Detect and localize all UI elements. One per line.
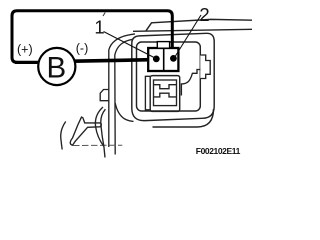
- left flange of cavity: [145, 76, 150, 110]
- wire from loop to battery (+): [15, 61, 40, 64]
- crescent tail: [104, 147, 105, 158]
- svg-text:F002102E11: F002102E11: [196, 146, 241, 156]
- connector housing hump top line: [146, 19, 252, 30]
- pin 1 dot: [153, 56, 160, 63]
- connector housing upper body line: [133, 29, 252, 31]
- left bracket arm inner curve: [115, 39, 133, 154]
- pin 2 dot: [170, 55, 177, 62]
- battery circle B: [38, 48, 75, 85]
- right interior step: [181, 70, 200, 96]
- lower cavity inner rect: [154, 80, 177, 106]
- tick above 1: [103, 13, 105, 17]
- lower fillet from bracket to shell: [115, 103, 133, 121]
- svg-text:2: 2: [199, 4, 209, 25]
- terminal socket divider: [163, 48, 165, 71]
- terminal socket rect: [148, 48, 178, 71]
- connector inner face: [137, 42, 201, 111]
- svg-text:(+): (+): [17, 43, 33, 57]
- svg-text:(-): (-): [76, 42, 89, 56]
- hammer arm shape: [70, 117, 101, 145]
- socket top tab: [157, 42, 169, 49]
- keyway on right side: [200, 55, 210, 79]
- crescent hose outer curve: [95, 107, 104, 147]
- clip on left bracket: [100, 90, 109, 101]
- dashed base line: [73, 144, 122, 146]
- bracket arc lower left: [61, 122, 66, 150]
- left bracket arm outer curve: [109, 34, 135, 147]
- wire battery (-) to pin 1: [74, 60, 157, 62]
- svg-text:B: B: [47, 51, 67, 84]
- crescent hose inner curve: [101, 109, 106, 146]
- leader line 2: [175, 15, 202, 58]
- lower cavity latch lower profile: [154, 93, 177, 97]
- battery supply loop wire: [12, 11, 172, 63]
- connector boot bottom arc: [153, 109, 214, 127]
- lower cavity outer rect: [150, 76, 180, 112]
- connector outer shell: [132, 33, 214, 120]
- lower cavity latch upper profile: [154, 85, 177, 89]
- leader line 1: [104, 32, 156, 59]
- svg-text:1: 1: [94, 17, 104, 38]
